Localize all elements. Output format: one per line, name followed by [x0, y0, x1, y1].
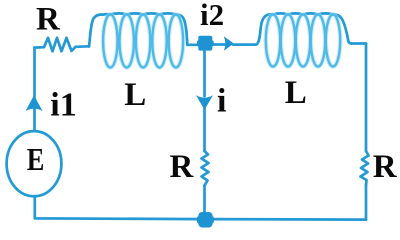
- wire: [365, 44, 368, 152]
- svg-text:R: R: [36, 2, 61, 38]
- inductor L1 loop halo: [103, 15, 117, 68]
- resistor R3 (right): [361, 151, 369, 185]
- svg-text:i2: i2: [200, 0, 224, 32]
- inductor L1 top: [89, 13, 187, 46]
- svg-text:L: L: [285, 75, 307, 111]
- wire: [188, 43, 200, 46]
- inductor L2 top: [256, 13, 352, 44]
- svg-text:R: R: [373, 149, 398, 185]
- resistor R1: [35, 38, 90, 52]
- inductor L1 loops: [103, 15, 117, 68]
- wire: [203, 186, 206, 214]
- arrow i1 (up): [26, 95, 43, 111]
- node junction bottom: [198, 212, 212, 228]
- svg-text:i: i: [217, 83, 226, 120]
- arrow i (down): [196, 95, 213, 109]
- inductor L2 loops: [266, 15, 280, 67]
- wire: [352, 42, 366, 45]
- wire: [211, 43, 225, 46]
- wire: [233, 43, 256, 46]
- wire: [33, 48, 36, 132]
- source E: [7, 131, 62, 196]
- resistor R2 (middle): [202, 151, 209, 186]
- arrow i2 (right): [224, 36, 234, 51]
- svg-text:R: R: [170, 149, 195, 185]
- wire: [365, 185, 368, 219]
- svg-text:L: L: [124, 77, 146, 113]
- svg-text:E: E: [27, 141, 45, 177]
- wire: [203, 108, 206, 151]
- wire: [203, 50, 206, 96]
- node junction top (i2 node): [198, 36, 212, 51]
- wire: [35, 196, 366, 220]
- inductor L2 loop halo: [266, 15, 280, 67]
- svg-text:i1: i1: [50, 87, 76, 124]
